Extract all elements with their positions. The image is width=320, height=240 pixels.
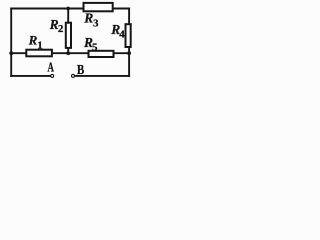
junction bottom of R2 branch (66, 51, 70, 55)
label R5 (83, 35, 98, 53)
wire bottom-left to terminal A (11, 75, 50, 77)
resistor R5 (89, 51, 114, 57)
node B terminal circle (72, 74, 75, 77)
svg-text:1: 1 (37, 39, 43, 51)
wire bottom-right from terminal B (75, 75, 129, 77)
wire top (11, 8, 129, 10)
svg-text:A: A (47, 61, 54, 76)
svg-text:4: 4 (119, 29, 125, 41)
resistor R1 (26, 50, 52, 57)
wire middle (11, 52, 129, 54)
junction right end of middle wire (127, 51, 131, 55)
svg-text:B: B (77, 63, 84, 78)
wire right (128, 9, 130, 76)
svg-text:R: R (28, 33, 38, 48)
wire R2 branch (67, 9, 69, 54)
label R1 (28, 33, 43, 52)
wire left (10, 9, 12, 76)
svg-text:3: 3 (93, 18, 99, 30)
junction top of R2 branch (66, 7, 70, 11)
label R3 (83, 11, 99, 30)
resistor R2 (66, 23, 71, 48)
svg-text:5: 5 (92, 42, 98, 54)
junction left end of middle wire (9, 51, 13, 55)
node A terminal circle (51, 74, 54, 77)
svg-text:R: R (83, 11, 93, 26)
resistor R3 (84, 3, 113, 11)
label R4 (110, 22, 125, 41)
resistor R4 (126, 24, 131, 47)
label R2 (49, 17, 64, 35)
svg-text:2: 2 (58, 23, 64, 35)
